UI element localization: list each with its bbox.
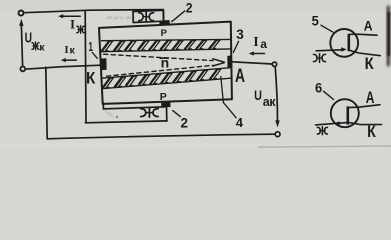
svg-text:К: К [365, 55, 375, 73]
svg-text:5: 5 [312, 12, 319, 28]
svg-text:U: U [254, 87, 262, 103]
svg-text:1: 1 [88, 39, 93, 54]
svg-text:2: 2 [186, 0, 193, 16]
svg-text:А: А [366, 89, 375, 107]
svg-text:к: к [269, 95, 276, 109]
svg-text:n: n [161, 54, 170, 70]
svg-text:2: 2 [181, 115, 189, 131]
svg-text:I: I [253, 34, 258, 49]
svg-text:к: к [70, 45, 76, 57]
svg-text:6: 6 [315, 79, 322, 95]
svg-text:А: А [235, 66, 245, 87]
svg-text:к: к [39, 41, 45, 53]
svg-text:А: А [364, 17, 373, 33]
svg-text:К: К [86, 70, 96, 88]
svg-text:4: 4 [236, 115, 244, 130]
svg-text:Р: Р [161, 28, 168, 39]
svg-text:Р: Р [160, 91, 167, 103]
svg-text:I: I [64, 44, 68, 56]
svg-text:U: U [25, 31, 32, 47]
svg-text:К: К [367, 123, 376, 141]
svg-text:I: I [70, 17, 75, 32]
svg-text:3: 3 [236, 26, 244, 42]
svg-text:а: а [260, 37, 267, 51]
